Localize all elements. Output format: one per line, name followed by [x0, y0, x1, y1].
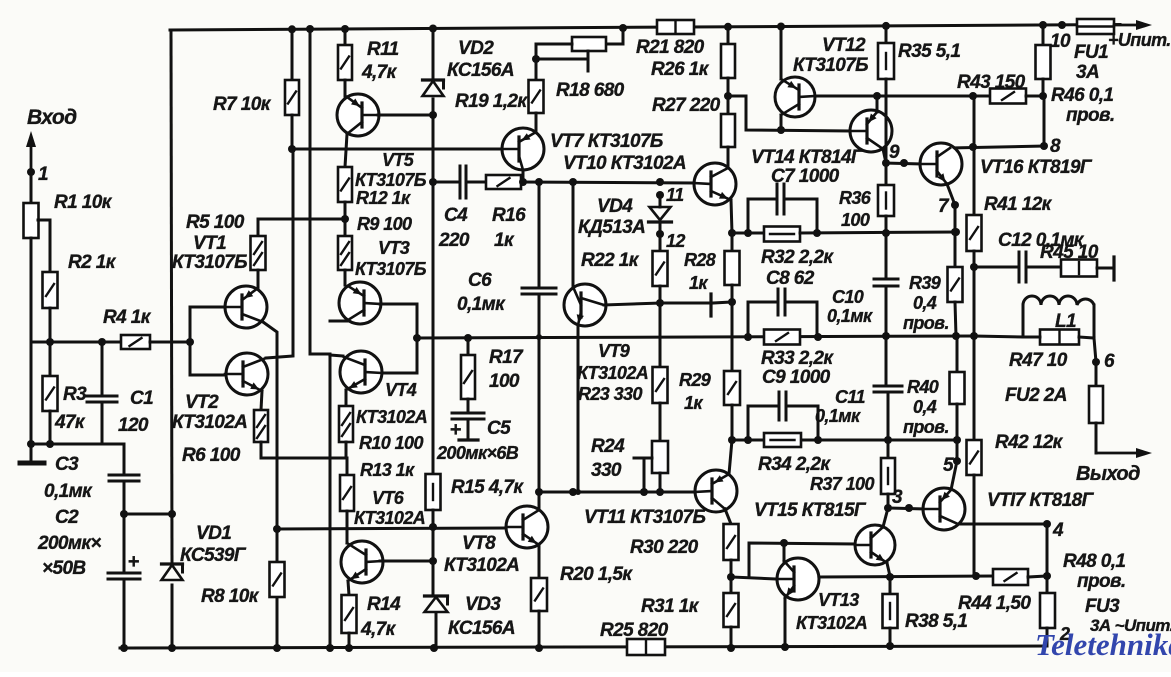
- svg-text:VT2: VT2: [185, 392, 219, 413]
- svg-text:VD1: VD1: [196, 523, 231, 544]
- node VT7 base wire: [288, 145, 296, 153]
- transistor VT11: [584, 470, 737, 528]
- resistor R1: [24, 192, 113, 238]
- node VD3 wire: [429, 557, 437, 565]
- wire VT12 base long: [815, 92, 973, 100]
- diode VD4: [578, 195, 672, 238]
- svg-text:C4: C4: [444, 205, 468, 226]
- svg-text:12: 12: [666, 231, 685, 251]
- resistor R29: [679, 370, 740, 413]
- svg-text:КС539Г: КС539Г: [180, 545, 247, 566]
- wire R2 tap: [38, 220, 50, 272]
- wire R6 to bus: [260, 442, 263, 458]
- wire top supply rail: [170, 25, 1120, 31]
- wire VT14 top: [876, 96, 879, 112]
- resistor R45: [1040, 242, 1114, 280]
- svg-text:R33 2,2к: R33 2,2к: [761, 348, 834, 369]
- svg-text:R5 100: R5 100: [186, 212, 245, 233]
- wire bias vertical: [306, 25, 334, 652]
- fuse FU1: [1074, 19, 1114, 83]
- zener VD2: [423, 28, 514, 96]
- node VT10 R32: [728, 229, 736, 237]
- node ground: [27, 440, 54, 448]
- svg-text:VT15 КТ815Г: VT15 КТ815Г: [754, 500, 867, 521]
- wire y440: [732, 436, 961, 444]
- svg-text:4,7к: 4,7к: [360, 619, 397, 640]
- svg-text:200мк×: 200мк×: [37, 533, 101, 554]
- svg-text:R31 1к: R31 1к: [641, 596, 700, 617]
- svg-text:R22 1к: R22 1к: [581, 250, 640, 271]
- svg-text:R39: R39: [909, 273, 941, 293]
- svg-text:R48 0,1: R48 0,1: [1063, 551, 1125, 572]
- svg-text:КД513А: КД513А: [578, 217, 645, 238]
- svg-text:R21 820: R21 820: [636, 37, 705, 58]
- svg-text:0,1мк: 0,1мк: [827, 306, 873, 326]
- svg-text:VT6: VT6: [372, 488, 405, 508]
- resistor R31: [724, 593, 739, 652]
- node 2: [1059, 624, 1070, 644]
- resistor R5: [186, 212, 266, 287]
- transistor VT3: [339, 238, 427, 324]
- wire node3 to VT17: [888, 508, 924, 509]
- wire mid feedback rail: [417, 336, 974, 338]
- svg-text:R24: R24: [591, 436, 625, 457]
- wire VT13 collector: [783, 543, 786, 561]
- capacitor C7: [744, 166, 840, 237]
- node VT8 base wire: [273, 525, 281, 533]
- resistor R38: [883, 577, 968, 650]
- svg-text:R17: R17: [489, 347, 524, 368]
- wire signal y182: [519, 178, 694, 186]
- svg-text:КТ3102А: КТ3102А: [444, 555, 519, 576]
- wire R18 tap: [532, 51, 588, 71]
- svg-text:R42 12к: R42 12к: [995, 432, 1064, 453]
- resistor R36: [839, 163, 894, 230]
- fuse FU2: [1005, 362, 1103, 453]
- wire R29 chain: [731, 302, 734, 371]
- svg-text:пров.: пров.: [903, 417, 949, 437]
- svg-text:C9 1000: C9 1000: [762, 367, 831, 388]
- svg-text:КТ3107Б: КТ3107Б: [793, 55, 868, 76]
- svg-text:VT14 КТ814Г: VT14 КТ814Г: [751, 147, 864, 168]
- capacitor C2: [37, 507, 140, 648]
- svg-text:R7 10к: R7 10к: [213, 94, 272, 115]
- transistor VT16: [920, 143, 1093, 185]
- svg-text:47к: 47к: [54, 412, 86, 433]
- resistor R12: [338, 134, 411, 208]
- svg-text:R20 1,5к: R20 1,5к: [560, 564, 633, 585]
- resistor R20: [531, 545, 633, 652]
- node VT14 R36: [882, 159, 890, 167]
- svg-text:C2: C2: [55, 507, 79, 528]
- resistor R8: [201, 562, 285, 607]
- capacitor C1: [87, 338, 153, 444]
- wire R1 to ground node: [30, 238, 33, 444]
- wire VT12 bottom: [777, 115, 785, 134]
- svg-text:FU2 2А: FU2 2А: [1005, 385, 1067, 406]
- resistor R27: [652, 78, 735, 168]
- transistor VT13: [777, 558, 867, 633]
- resistor R25: [600, 620, 669, 655]
- svg-text:R1 10к: R1 10к: [54, 192, 113, 213]
- wire VT13 base: [731, 577, 777, 579]
- svg-text:VT13: VT13: [818, 590, 859, 610]
- capacitor C3: [44, 444, 139, 502]
- resistor R22: [581, 224, 668, 367]
- resistor R42: [967, 432, 1064, 576]
- svg-text:R36: R36: [839, 188, 872, 208]
- resistor R21: [636, 20, 705, 58]
- transistor VT5: [337, 94, 427, 190]
- wire VT1 VT2 base bracket: [190, 307, 225, 375]
- wire VD2 vertical: [432, 99, 435, 474]
- wire VT17 collector: [958, 523, 1047, 526]
- resistor R6: [182, 410, 268, 466]
- svg-text:×50В: ×50В: [42, 558, 86, 579]
- node VD1 rail: [120, 644, 176, 652]
- node 10: [1050, 21, 1071, 52]
- svg-text:11: 11: [666, 185, 684, 205]
- wire VT1 collector: [263, 322, 277, 648]
- resistor R37: [810, 440, 895, 508]
- wire VT9 collector: [604, 299, 664, 307]
- node R28 bottom: [728, 298, 736, 306]
- svg-text:8: 8: [1050, 136, 1061, 157]
- R24 tap: [634, 458, 652, 492]
- svg-text:КТ3102А: КТ3102А: [796, 613, 867, 633]
- input arrow Вход: [26, 131, 36, 172]
- svg-text:0,1мк: 0,1мк: [457, 294, 506, 315]
- watermark Teletehnika: [1035, 627, 1171, 662]
- svg-text:С7 1000: С7 1000: [771, 166, 840, 187]
- resistor R4: [103, 307, 152, 349]
- svg-text:VT10 КТ3102А: VT10 КТ3102А: [563, 153, 686, 174]
- wire R30 node: [730, 560, 733, 593]
- svg-text:пров.: пров.: [1066, 105, 1115, 126]
- resistor R28: [684, 233, 740, 302]
- svg-text:VT7 КТ3107Б: VT7 КТ3107Б: [550, 131, 663, 152]
- wire y233 left: [732, 232, 764, 235]
- svg-text:4: 4: [1052, 520, 1064, 541]
- resistor R30: [630, 509, 739, 560]
- node R26 rail: [724, 23, 732, 31]
- wire R29 bottom: [728, 405, 736, 444]
- wire VT3 left stub: [330, 320, 349, 323]
- svg-text:пров.: пров.: [903, 313, 949, 333]
- wire R6 R10 bus: [261, 457, 347, 460]
- svg-text:КС156А: КС156А: [448, 618, 515, 639]
- capacitor C4: [433, 166, 486, 251]
- svg-text:R47 10: R47 10: [1009, 350, 1068, 371]
- wire VT12 top: [777, 23, 785, 80]
- wire y492: [535, 488, 694, 496]
- wire R2 to node: [49, 308, 52, 342]
- node R15 base: [429, 523, 437, 531]
- resistor R35: [878, 22, 960, 163]
- resistor R41: [967, 96, 1053, 251]
- svg-text:5: 5: [943, 455, 954, 476]
- svg-text:VT12: VT12: [822, 35, 866, 56]
- wire VT15 collector: [883, 504, 892, 527]
- capacitor C11: [815, 332, 902, 440]
- wire R12 R9 node: [341, 202, 349, 236]
- transistor VT4: [340, 351, 427, 427]
- wire y233 right: [800, 228, 960, 236]
- svg-text:КТ3107Б: КТ3107Б: [172, 252, 247, 273]
- svg-text:R9 100: R9 100: [357, 214, 412, 234]
- svg-text:VT11 КТ3107Б: VT11 КТ3107Б: [584, 507, 705, 528]
- svg-text:Выход: Выход: [1076, 463, 1140, 485]
- resistor R7: [213, 25, 299, 149]
- transistor VT7: [502, 128, 686, 174]
- wire emitter bus: [819, 572, 993, 581]
- svg-text:3А: 3А: [1076, 62, 1099, 83]
- svg-text:+Uпит.: +Uпит.: [1108, 30, 1171, 50]
- svg-text:КТ3102А: КТ3102А: [354, 508, 425, 528]
- node R26 R27: [724, 92, 732, 100]
- svg-text:C8 62: C8 62: [766, 268, 815, 289]
- wire R27 to VT14: [728, 96, 850, 131]
- wire input to R4: [31, 341, 121, 344]
- svg-text:R27 220: R27 220: [652, 95, 721, 116]
- transistor VT17: [923, 488, 1095, 530]
- svg-text:0,1мк: 0,1мк: [44, 481, 93, 502]
- svg-text:R10 100: R10 100: [359, 433, 423, 453]
- wire VT14 emitter: [883, 149, 886, 163]
- wire R3 top: [49, 342, 52, 376]
- wire VT13 emitter: [781, 598, 789, 651]
- svg-text:0,1мк: 0,1мк: [815, 406, 861, 426]
- svg-text:100: 100: [489, 371, 520, 392]
- resistor R40: [903, 336, 965, 440]
- svg-text:100: 100: [841, 210, 870, 230]
- wire ground bus: [31, 443, 124, 446]
- capacitor C5: [436, 399, 519, 463]
- resistor R46: [1036, 21, 1115, 126]
- svg-text:C1: C1: [130, 388, 153, 409]
- svg-text:R34 2,2к: R34 2,2к: [758, 454, 831, 475]
- svg-text:R29: R29: [679, 370, 711, 390]
- resistor R15: [426, 474, 525, 510]
- inductor L1: [974, 296, 1094, 338]
- transistor VT6: [341, 488, 425, 583]
- node C12: [970, 251, 978, 271]
- svg-text:R26 1к: R26 1к: [651, 59, 710, 80]
- wire VT7 base long: [292, 148, 502, 151]
- node 7: [938, 184, 959, 217]
- wire VT16 collector: [950, 143, 1044, 151]
- resistor R2: [43, 252, 117, 308]
- wire 9 node: [886, 142, 921, 167]
- resistor R18: [536, 28, 625, 101]
- svg-text:R16: R16: [492, 205, 526, 226]
- svg-text:VT16 КТ819Г: VT16 КТ819Г: [980, 157, 1093, 178]
- capacitor C12: [974, 230, 1085, 282]
- svg-text:+: +: [127, 551, 139, 573]
- svg-text:R23 330: R23 330: [578, 384, 642, 404]
- wire VT8 base long: [277, 528, 506, 529]
- svg-text:R13 1к: R13 1к: [360, 460, 415, 480]
- transistor VT9: [564, 284, 648, 383]
- node rail R18: [619, 24, 627, 32]
- wire R4 to bases: [150, 341, 190, 344]
- resistor R23: [578, 367, 668, 404]
- svg-text:R14: R14: [367, 594, 401, 615]
- node 1: [27, 164, 48, 185]
- svg-text:10: 10: [1050, 31, 1071, 52]
- svg-text:1: 1: [38, 164, 48, 185]
- svg-text:R46 0,1: R46 0,1: [1051, 85, 1113, 106]
- transistor VT2: [172, 353, 268, 433]
- node R30 R31: [727, 573, 735, 581]
- wire node7 down: [951, 205, 959, 267]
- terminal bar mid: [711, 294, 732, 316]
- svg-text:R30 220: R30 220: [630, 537, 699, 558]
- svg-text:VD2: VD2: [458, 38, 494, 59]
- svg-text:КТ3107Б: КТ3107Б: [355, 259, 427, 279]
- wire node to VD1: [124, 510, 176, 518]
- wire VT3 VT4 bracket: [380, 304, 417, 373]
- svg-text:пров.: пров.: [1077, 571, 1126, 592]
- transistor VT12: [775, 35, 868, 117]
- svg-text:Teletehnika: Teletehnika: [1035, 627, 1171, 662]
- wire R5 to R9 node: [258, 218, 345, 221]
- resistor R9: [338, 214, 412, 285]
- node C6 mid: [536, 334, 542, 340]
- resistor R10: [339, 390, 423, 458]
- svg-text:С10: С10: [832, 287, 864, 307]
- resistor R24: [591, 403, 668, 492]
- svg-text:R35 5,1: R35 5,1: [898, 41, 960, 62]
- svg-text:C3: C3: [55, 454, 79, 475]
- svg-text:R28: R28: [684, 250, 716, 270]
- svg-text:0,4: 0,4: [913, 293, 937, 313]
- wire y303 to bar: [660, 302, 709, 305]
- svg-text:VD3: VD3: [465, 594, 501, 615]
- transistor VT8: [444, 506, 548, 576]
- resistor R43: [957, 72, 1047, 104]
- svg-text:R44 1,50: R44 1,50: [958, 593, 1031, 614]
- node R2 R3: [46, 338, 54, 346]
- svg-text:КС156А: КС156А: [447, 60, 514, 81]
- label Вход: [27, 106, 77, 129]
- resistor R33: [761, 330, 834, 370]
- svg-text:Вход: Вход: [27, 106, 77, 129]
- transistor VT10: [694, 163, 736, 205]
- svg-text:R45 10: R45 10: [1040, 242, 1099, 263]
- resistor R47: [1009, 330, 1094, 372]
- svg-text:R19 1,2к: R19 1,2к: [455, 91, 528, 112]
- svg-text:R37 100: R37 100: [810, 474, 874, 494]
- svg-text:VT9: VT9: [598, 341, 630, 361]
- svg-text:КТ3102А: КТ3102А: [172, 412, 247, 433]
- capacitor C6: [457, 182, 556, 492]
- wire VT2 collector up: [261, 391, 262, 410]
- wire VT9 base: [572, 182, 575, 287]
- svg-text:С11: С11: [835, 387, 865, 407]
- svg-text:+: +: [449, 419, 461, 441]
- wire VT11 emitter: [729, 440, 732, 474]
- svg-text:R2 1к: R2 1к: [68, 252, 117, 273]
- svg-text:VT4: VT4: [385, 380, 417, 400]
- node 8: [1040, 96, 1061, 157]
- capacitor C9: [748, 367, 831, 440]
- svg-text:R4 1к: R4 1к: [103, 307, 152, 328]
- svg-text:R40: R40: [907, 377, 939, 397]
- wire VT15 base step: [749, 539, 855, 577]
- wire left loop to rail: [171, 585, 174, 648]
- resistor R32: [761, 227, 834, 269]
- node 5: [943, 440, 961, 476]
- node C4 tap: [429, 178, 437, 186]
- wire VT10 emitter: [731, 200, 732, 233]
- svg-text:R38 5,1: R38 5,1: [905, 611, 967, 632]
- svg-text:C5: C5: [487, 418, 511, 439]
- resistor R44: [958, 569, 1051, 614]
- svg-text:R8 10к: R8 10к: [201, 586, 260, 607]
- wire VT9 emitter: [577, 325, 580, 492]
- svg-text:R32 2,2к: R32 2,2к: [761, 247, 834, 268]
- node VD2 rail: [429, 25, 437, 33]
- svg-text:R11: R11: [367, 39, 399, 60]
- svg-text:FU3: FU3: [1085, 596, 1120, 617]
- svg-text:FU1: FU1: [1074, 42, 1108, 63]
- node C10 y233: [882, 229, 890, 237]
- wire R42 vertical: [970, 267, 978, 440]
- supply arrow: [1108, 20, 1171, 50]
- wire input vertical: [30, 172, 33, 203]
- node 3: [892, 487, 913, 512]
- node 11: [656, 178, 684, 205]
- node VD2 VT5: [429, 111, 437, 119]
- resistor R14: [342, 581, 402, 652]
- output arrow Выход: [1076, 448, 1152, 485]
- node 6: [1092, 338, 1115, 372]
- svg-text:VT8: VT8: [462, 533, 496, 554]
- resistor R11: [338, 25, 399, 96]
- resistor R13: [340, 458, 415, 543]
- wire VT4 left stub: [330, 355, 343, 356]
- node input bases: [186, 338, 194, 346]
- svg-text:1к: 1к: [684, 393, 703, 413]
- capacitor C10: [827, 216, 898, 336]
- label R48: [1063, 551, 1126, 592]
- wire VT6 collector: [380, 560, 434, 563]
- resistor R26: [651, 26, 735, 80]
- svg-text:R6 100: R6 100: [182, 445, 241, 466]
- node 4: [1043, 520, 1064, 576]
- resistor R3: [43, 376, 88, 433]
- wire VT11 base bus: [693, 491, 696, 494]
- wire VT8 collector: [538, 492, 541, 510]
- node C8 rail: [744, 333, 822, 341]
- svg-text:220: 220: [438, 230, 470, 251]
- resistor R16: [486, 175, 526, 251]
- node feedback start: [413, 334, 421, 342]
- resistor R17: [461, 338, 524, 399]
- wire VT5 collector: [378, 114, 433, 117]
- svg-text:КТ3102А: КТ3102А: [577, 363, 648, 383]
- zener VD1: [162, 523, 247, 580]
- svg-text:330: 330: [591, 460, 622, 481]
- svg-text:R25 820: R25 820: [600, 620, 669, 641]
- svg-text:R15 4,7к: R15 4,7к: [451, 477, 524, 498]
- svg-text:VTI7 КТ818Г: VTI7 КТ818Г: [987, 490, 1095, 511]
- svg-text:КТ3102А: КТ3102А: [356, 407, 427, 427]
- wire R3 bottom: [49, 411, 52, 444]
- capacitor C8: [748, 268, 817, 337]
- transistor VT1: [172, 233, 267, 328]
